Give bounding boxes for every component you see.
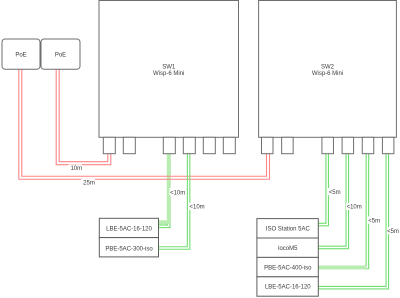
svg-text:<10m: <10m — [347, 205, 362, 211]
svg-text:locoM5: locoM5 — [278, 246, 298, 252]
svg-text:<10m: <10m — [190, 205, 205, 211]
svg-text:<5m: <5m — [368, 218, 380, 224]
svg-text:<10m: <10m — [170, 190, 185, 196]
svg-text:PoE: PoE — [55, 52, 66, 58]
svg-text:PoE: PoE — [15, 52, 26, 58]
svg-text:LBE-5AC-16-120: LBE-5AC-16-120 — [106, 226, 152, 232]
svg-text:Wisp-6 Mini: Wisp-6 Mini — [312, 71, 343, 77]
svg-text:SW1: SW1 — [162, 65, 176, 71]
svg-text:25m: 25m — [83, 180, 95, 186]
svg-text:PBE-5AC-400-iso: PBE-5AC-400-iso — [264, 265, 312, 271]
svg-text:PBE-5AC-300-iso: PBE-5AC-300-iso — [105, 247, 153, 253]
svg-text:LBE-5AC-16-120: LBE-5AC-16-120 — [265, 285, 311, 291]
svg-text:<5m: <5m — [329, 190, 341, 196]
svg-text:Wisp-6 Mini: Wisp-6 Mini — [153, 71, 184, 77]
svg-text:10m: 10m — [70, 166, 82, 172]
svg-text:SW2: SW2 — [321, 65, 335, 71]
svg-text:ISO Station 5AC: ISO Station 5AC — [266, 227, 311, 233]
svg-text:<5m: <5m — [387, 229, 399, 235]
